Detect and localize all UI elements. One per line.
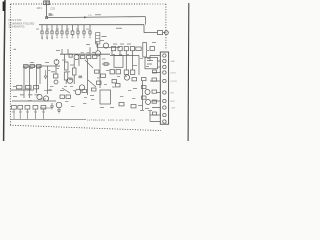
- tall resistor box center 2: [73, 68, 77, 75]
- connector pin 7: [163, 99, 166, 102]
- IC box U3: [145, 58, 158, 69]
- bus wire 2: [39, 24, 144, 26]
- tiny label blobs: [12, 14, 156, 112]
- resistor row y105: [12, 106, 46, 110]
- dashed border top: [11, 3, 148, 5]
- label row y95: [20, 94, 39, 95]
- transistor Q10: [124, 75, 129, 80]
- shunt row tick marks: [56, 37, 91, 39]
- left drop wires: [24, 64, 56, 98]
- connector pin 1: [163, 54, 166, 57]
- wires center verticals: [62, 42, 133, 95]
- dashed border left: [9, 4, 11, 125]
- connector pin 9: [163, 113, 166, 116]
- mid horizontal wire y55.5: [110, 55, 139, 57]
- wire to connector y67: [158, 66, 161, 68]
- labels above transistor pair: [49, 71, 71, 90]
- wire fuse to bus: [46, 5, 48, 18]
- shunt row ground arrows: [41, 38, 53, 40]
- component box near terminal: [157, 31, 162, 35]
- resistor row y46 right: [112, 47, 155, 51]
- wire bus1 drop: [145, 17, 147, 25]
- IC box U2: [114, 56, 123, 68]
- transistor Q2: [95, 51, 100, 56]
- boxes on rail y66: [24, 65, 42, 68]
- boxes near Q10: [112, 78, 137, 108]
- IC tall box right: [143, 43, 147, 58]
- connector pin labels: [171, 61, 178, 110]
- ground symbol left: [50, 103, 54, 109]
- transistor Q1: [103, 43, 108, 48]
- capacitor near x104: [104, 63, 108, 66]
- right stack boxes: [142, 70, 157, 115]
- wire y119: [11, 118, 87, 120]
- svg-text:OUT R: OUT R: [171, 81, 178, 83]
- rail y90: [11, 89, 35, 91]
- vertical wire x142.5: [142, 81, 144, 110]
- left page edge blob: [3, 2, 6, 12]
- svg-text:1R1: 1R1: [37, 6, 43, 10]
- transistor Q4: [54, 60, 59, 65]
- svg-text:SCHEMATIC: SCHEMATIC: [9, 25, 25, 29]
- terminal circle: [165, 31, 169, 35]
- svg-text:IN R: IN R: [171, 101, 176, 103]
- transistor Q6: [75, 89, 81, 95]
- boxes center y70-88: [82, 70, 106, 93]
- connector pin 5: [163, 79, 166, 82]
- wire y90 short: [40, 91, 52, 109]
- junction node: [46, 17, 48, 19]
- diagonal wires: [62, 60, 96, 93]
- tall resistor box center: [65, 62, 69, 70]
- component box x53 y74: [54, 74, 58, 78]
- rail y101: [12, 100, 56, 102]
- connector J1 body: [160, 52, 168, 124]
- svg-text:12V: 12V: [88, 15, 92, 17]
- fuse F1: [44, 1, 50, 5]
- tall resistor box center 3: [64, 72, 68, 80]
- shunt component row: [41, 25, 91, 38]
- wire bus to terminal: [144, 25, 165, 33]
- boxes y70 row right: [110, 70, 135, 75]
- left page edge line: [4, 0, 5, 141]
- connector stub wires: [150, 56, 160, 122]
- right page edge line: [187, 3, 190, 141]
- small circle below: [54, 80, 58, 84]
- transistor Q8: [37, 94, 42, 99]
- boxes y95 center-left: [60, 95, 71, 98]
- svg-text:GND: GND: [171, 61, 176, 63]
- svg-text:(1700-004 103-4 AV 05 13: (1700-004 103-4 AV 05 13: [87, 118, 135, 122]
- tick mark left: [14, 49, 17, 50]
- vertical x139: [138, 56, 140, 76]
- transistor Q12: [146, 100, 151, 105]
- transistor Q7: [56, 102, 62, 108]
- sub box: [100, 90, 111, 104]
- connector pin 4: [163, 71, 166, 74]
- down arrow component: [44, 70, 46, 79]
- stubs under bottom boxes: [14, 109, 43, 119]
- connector pin 3: [163, 65, 166, 68]
- transistor Q5: [79, 85, 84, 90]
- dashed border top faint part: [147, 3, 166, 5]
- transistor Q3: [74, 55, 79, 60]
- ground under Q7: [57, 108, 61, 113]
- rail y66 left: [24, 65, 60, 67]
- connector pin 6: [163, 91, 166, 94]
- arrowhead on bus 1: [84, 16, 88, 18]
- capacitor C35: [49, 14, 52, 16]
- transistor Q4b: [67, 78, 73, 84]
- dashed border bottom: [10, 125, 161, 130]
- svg-text:+12V: +12V: [171, 108, 176, 110]
- dashed border right: [165, 4, 167, 50]
- svg-text:C35: C35: [50, 7, 55, 11]
- page background: [0, 0, 200, 141]
- stub under hatched box: [97, 44, 99, 51]
- connector pin 10: [163, 120, 166, 123]
- connector pin 2: [163, 59, 166, 62]
- transistor Q11: [145, 90, 150, 95]
- connector pin 8: [163, 106, 166, 109]
- transistor Q9: [43, 96, 48, 101]
- label in U3: [147, 60, 153, 61]
- hatched component box: [96, 33, 100, 45]
- label right of hatched box: [102, 36, 107, 37]
- mid horizontal wire y54: [60, 53, 110, 55]
- bus wire 1: [47, 17, 146, 18]
- vertical x150 right: [149, 56, 151, 122]
- row y55-60 center components: [69, 54, 97, 59]
- resistor boxes y84: [17, 86, 39, 89]
- svg-text:OUT L: OUT L: [171, 73, 178, 75]
